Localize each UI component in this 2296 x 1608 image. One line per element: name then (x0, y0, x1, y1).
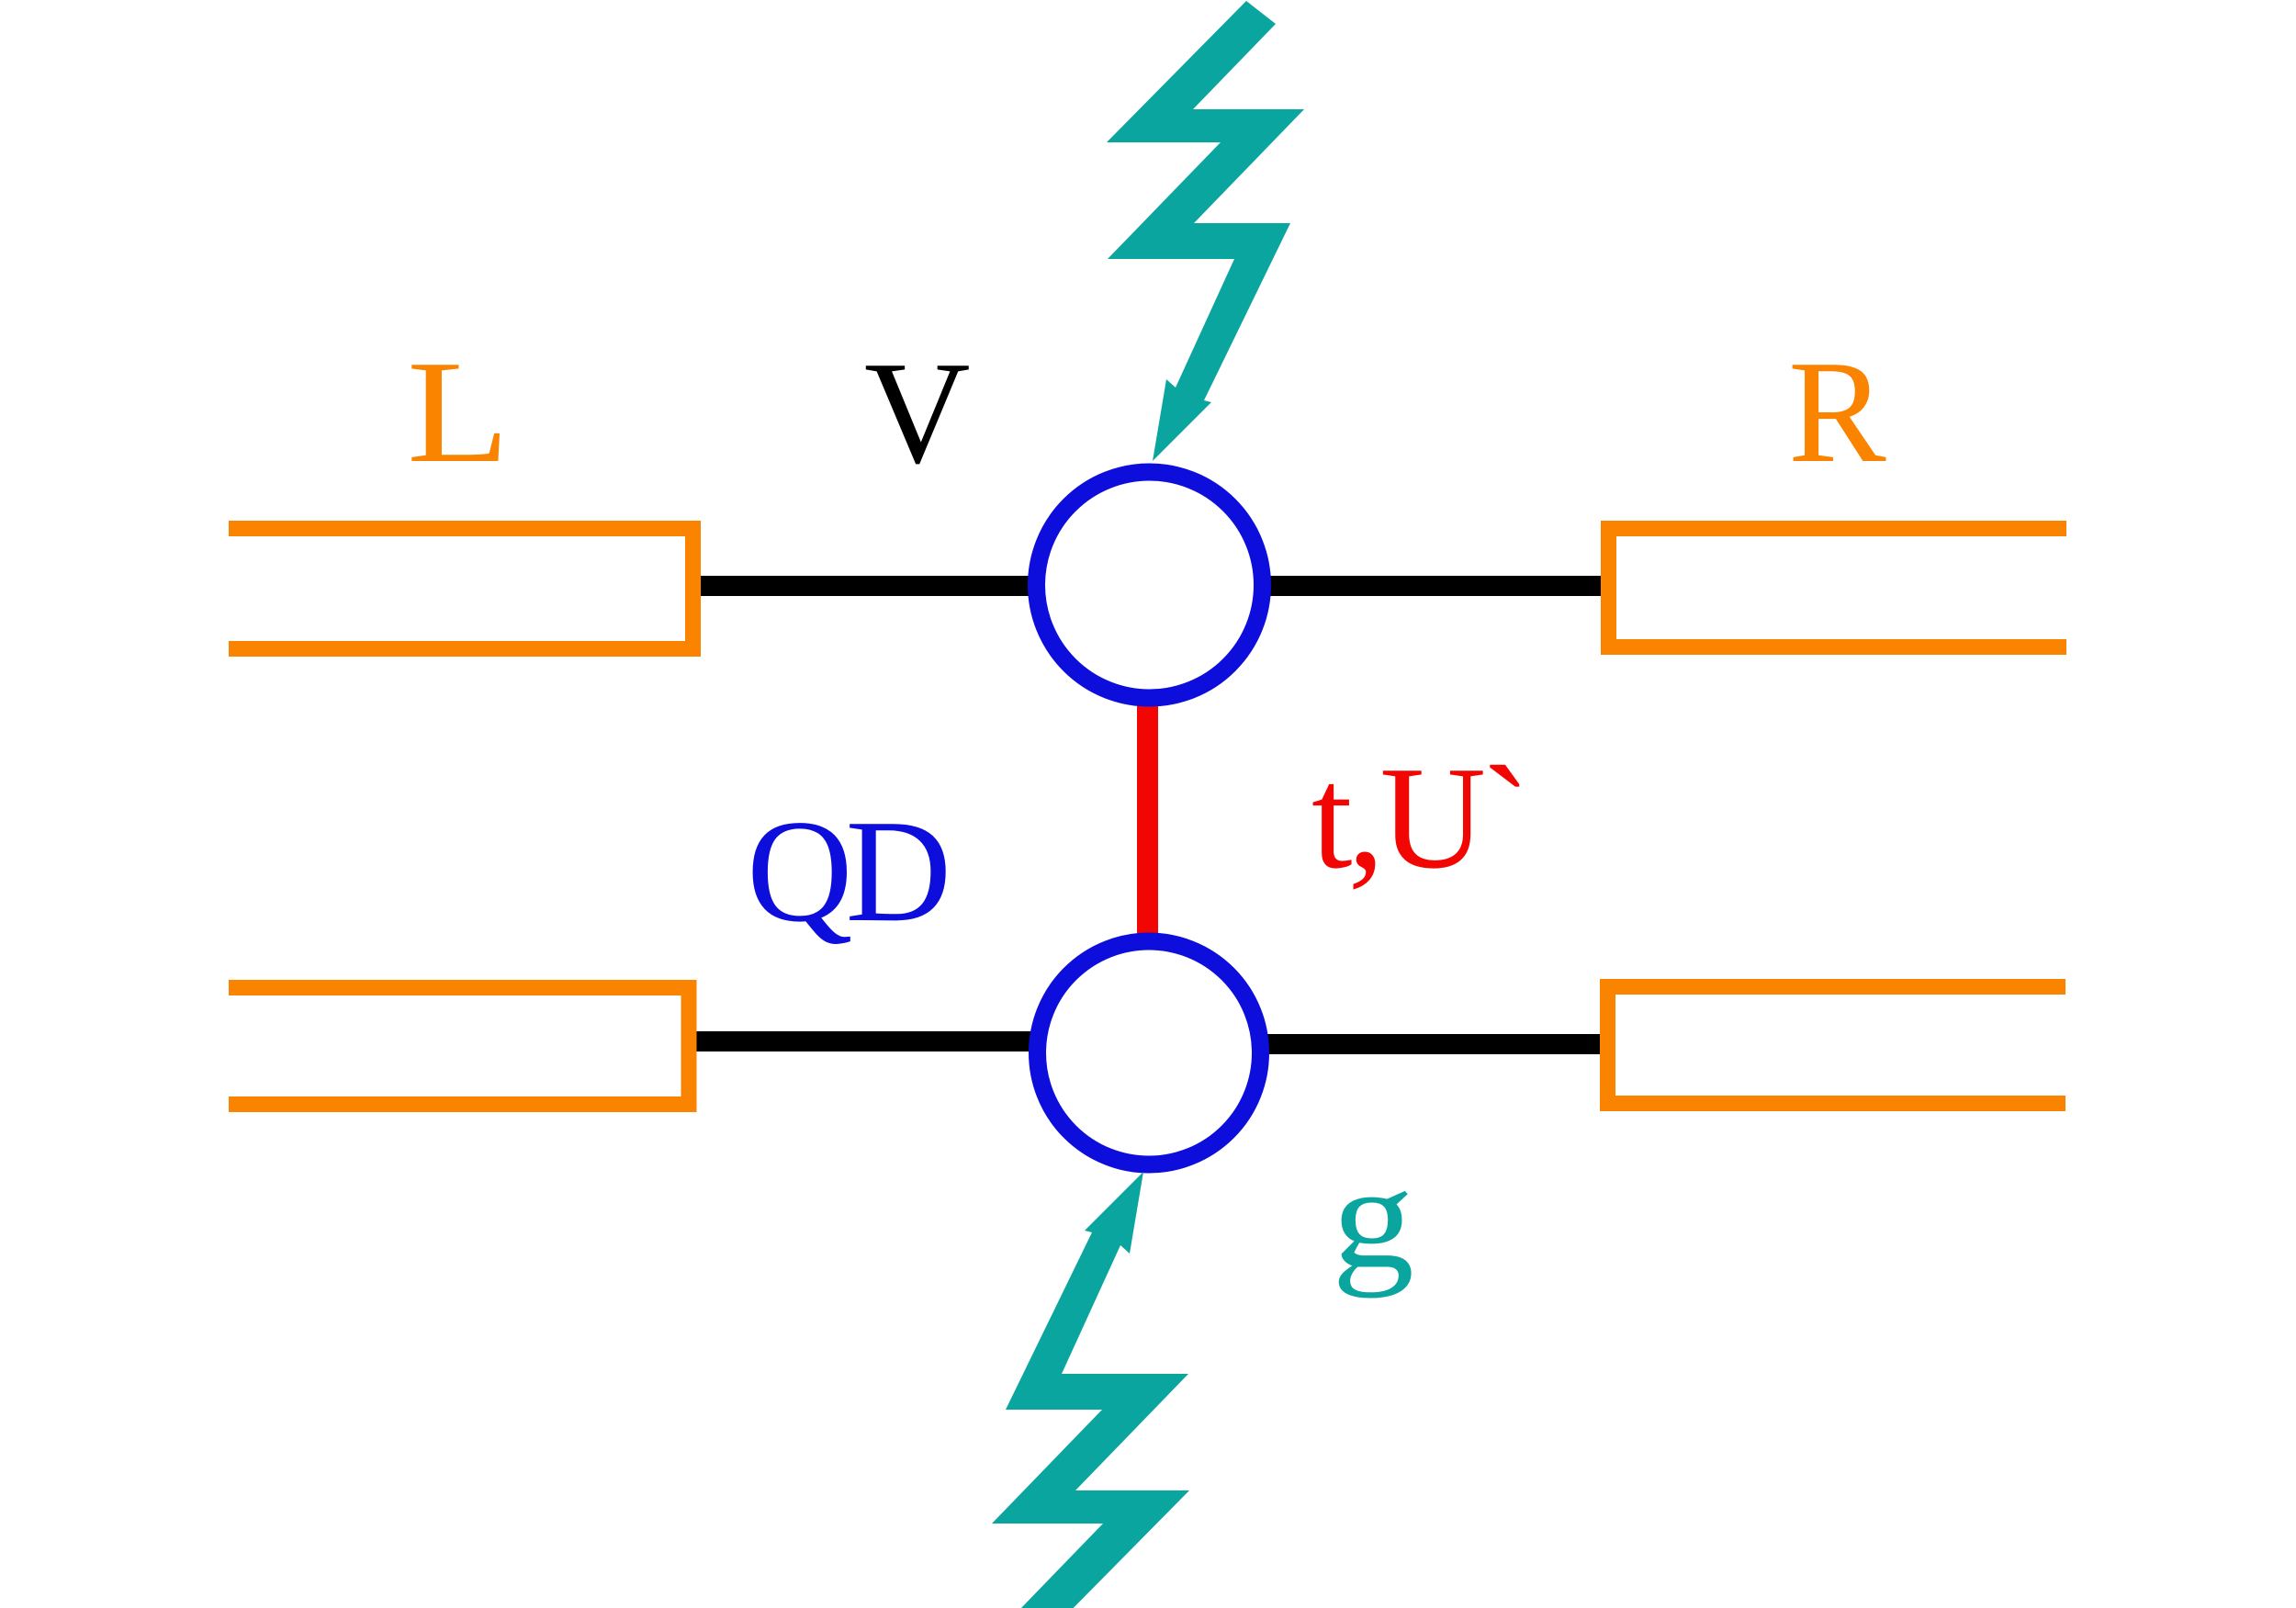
svg-text:g: g (1332, 1135, 1414, 1299)
gate pulse lightning arrow into bottom dot (teal) (992, 1172, 1189, 1608)
quantum dot QD bottom (blue circle) (1038, 941, 1261, 1164)
lead R bottom (orange, open right) (1608, 987, 2066, 1104)
lead R top (orange, open right) (1609, 529, 2067, 647)
interdot coupling link t,U (red) (1137, 689, 1158, 946)
svg-text:R: R (1788, 330, 1886, 493)
svg-text:t,U`: t,U` (1311, 736, 1525, 899)
quantum dot QD top (blue circle) (1037, 472, 1263, 698)
wire: top dot to top-right lead (1249, 576, 1603, 596)
svg-text:QD: QD (747, 789, 947, 952)
svg-text:V: V (864, 331, 971, 494)
gate pulse lightning arrow into top dot (teal) (1107, 1, 1304, 461)
lead L top (orange, open left) (229, 529, 693, 649)
svg-text:L: L (407, 330, 510, 493)
wire: bottom-left lead to bottom dot (695, 1031, 1052, 1051)
wire: top-left lead to top dot (698, 576, 1052, 596)
wire: bottom dot to bottom-right lead (1249, 1034, 1602, 1054)
lead L bottom (orange, open left) (229, 988, 689, 1105)
